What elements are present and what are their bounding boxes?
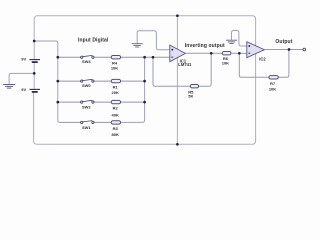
svg-text:IC2: IC2 — [259, 57, 266, 62]
svg-text:SW1: SW1 — [82, 125, 91, 130]
svg-text:LM741: LM741 — [178, 62, 192, 67]
svg-text:SW2: SW2 — [82, 105, 91, 110]
svg-text:10K: 10K — [111, 66, 118, 71]
svg-text:R3: R3 — [113, 126, 119, 131]
svg-text:Output: Output — [275, 39, 292, 45]
svg-text:9V: 9V — [21, 56, 26, 61]
svg-text:R1: R1 — [113, 85, 119, 90]
svg-text:R7: R7 — [270, 81, 276, 86]
svg-text:R2: R2 — [113, 106, 119, 111]
svg-text:9V: 9V — [21, 87, 26, 92]
svg-text:20K: 20K — [112, 90, 119, 95]
svg-text:40K: 40K — [112, 112, 119, 117]
svg-text:Input Digital: Input Digital — [78, 38, 109, 44]
svg-text:SW0: SW0 — [82, 83, 91, 88]
svg-text:Inverting output: Inverting output — [185, 43, 225, 49]
svg-text:10K: 10K — [269, 87, 276, 92]
svg-text:5K: 5K — [188, 94, 193, 99]
svg-text:SW4: SW4 — [82, 59, 91, 64]
svg-text:10K: 10K — [222, 61, 229, 66]
svg-text:80K: 80K — [112, 132, 119, 137]
